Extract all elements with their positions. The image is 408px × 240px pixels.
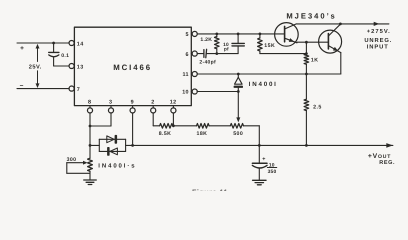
svg-text:UNREG.: UNREG.	[364, 37, 392, 44]
svg-text:2: 2	[151, 100, 154, 106]
svg-text:−: −	[20, 82, 24, 89]
svg-text:IN400I·s: IN400I·s	[98, 163, 136, 170]
svg-text:5: 5	[185, 32, 188, 38]
svg-text:300: 300	[67, 157, 77, 163]
svg-text:1.2K: 1.2K	[200, 37, 212, 43]
svg-text:+VOUT: +VOUT	[368, 153, 391, 160]
svg-text:2-40pf: 2-40pf	[199, 60, 216, 66]
svg-text:25V.: 25V.	[29, 64, 42, 70]
svg-text:REG.: REG.	[379, 160, 395, 166]
svg-text:9: 9	[131, 100, 134, 106]
svg-text:350: 350	[268, 169, 277, 175]
svg-text:11: 11	[182, 72, 188, 78]
svg-text:+275V.: +275V.	[367, 28, 391, 35]
svg-text:14: 14	[77, 41, 84, 47]
svg-text:MCI466: MCI466	[113, 63, 152, 72]
svg-text:12: 12	[170, 100, 177, 106]
svg-text:+: +	[262, 157, 265, 163]
svg-text:13: 13	[77, 64, 84, 70]
svg-text:7: 7	[77, 87, 80, 93]
svg-text:IN400I: IN400I	[249, 81, 278, 88]
svg-text:15K: 15K	[264, 43, 275, 49]
svg-text:pf: pf	[224, 47, 229, 53]
svg-text:6: 6	[185, 52, 188, 58]
svg-text:0.1: 0.1	[61, 53, 69, 59]
svg-text:MJE340’s: MJE340’s	[286, 12, 336, 21]
svg-text:8: 8	[88, 100, 91, 106]
svg-text:10: 10	[182, 90, 189, 96]
svg-text:3: 3	[109, 100, 112, 106]
svg-text:2.5: 2.5	[313, 105, 322, 111]
svg-text:1K: 1K	[311, 58, 319, 64]
svg-text:+: +	[20, 45, 24, 52]
svg-text:8.5K: 8.5K	[159, 131, 172, 137]
svg-text:Figure 11: Figure 11	[192, 187, 228, 191]
svg-text:INPUT: INPUT	[367, 45, 389, 51]
svg-text:500: 500	[233, 131, 243, 137]
svg-text:18K: 18K	[197, 131, 208, 137]
